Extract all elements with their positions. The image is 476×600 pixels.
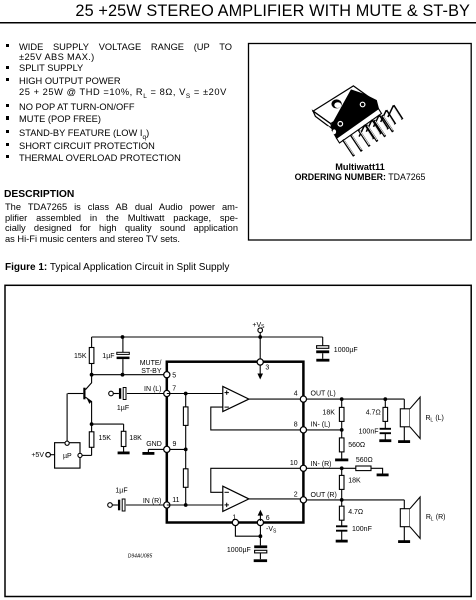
ground RL(R) (398, 540, 410, 543)
node R7/R8 (340, 466, 344, 470)
ground C6 (379, 433, 391, 441)
resistor R2 15K (82, 424, 111, 455)
svg-text:100nF: 100nF (359, 428, 379, 435)
label RL (L) (426, 415, 444, 423)
wire IN-(L) (306, 429, 341, 431)
ground C1 (316, 359, 329, 362)
pin 2 (294, 492, 307, 503)
svg-text:µP: µP (63, 453, 72, 460)
svg-text:7: 7 (172, 385, 176, 392)
node in+ L (184, 392, 188, 396)
svg-text:OUT (L): OUT (L) (311, 390, 336, 397)
label MUTE/ST-BY (140, 360, 162, 375)
package body (331, 90, 379, 138)
svg-text:(L): (L) (433, 415, 444, 422)
wire mute line (92, 374, 164, 376)
svg-text:+VS: +VS (252, 322, 265, 330)
capacitor C7 100nF (336, 520, 372, 533)
pin 6 arrow (258, 510, 264, 521)
node R5 top (340, 428, 344, 432)
wire C1 drop (322, 337, 324, 346)
svg-text:IN (R): IN (R) (143, 498, 162, 505)
ground R5 (335, 452, 348, 460)
pin 1 (232, 514, 238, 525)
svg-text:IN- (L): IN- (L) (311, 421, 331, 428)
svg-text:6: 6 (266, 515, 270, 522)
Multiwatt11 package tab plate (313, 86, 371, 130)
node Q1 emitter (90, 422, 94, 426)
wire in+ L (167, 393, 223, 395)
input terminal IN(R) (108, 503, 113, 508)
svg-text:-VS: -VS (266, 526, 277, 534)
wire feedback L (211, 407, 301, 430)
wire pin1/pin6 join (235, 525, 260, 536)
svg-text:1: 1 (232, 514, 236, 521)
capacitor C5 1000uF (227, 536, 267, 559)
wire pin3 drop (259, 337, 261, 359)
wire in+ R (167, 504, 223, 506)
pin 11 (164, 497, 180, 508)
ground R7 (371, 468, 389, 475)
resistor R9 4.7 (339, 500, 363, 520)
node +Vs/pin3 (258, 335, 262, 339)
svg-text:4: 4 (294, 391, 298, 398)
transistor Q1 (68, 375, 92, 424)
resistor R3 18K (121, 424, 142, 446)
package name Multiwatt11 (249, 162, 472, 172)
label IN- (L) (311, 421, 331, 428)
svg-text:IN- (R): IN- (R) (311, 461, 332, 468)
pin 7 (164, 385, 177, 396)
svg-text:1000µF: 1000µF (227, 547, 251, 554)
+5V terminal (31, 452, 54, 459)
page title (0, 2, 470, 21)
title rule (0, 22, 476, 24)
wire OUT(R) (306, 499, 404, 501)
pin 5 (164, 372, 177, 380)
microprocessor box (55, 443, 80, 468)
wire pin 9 internal (170, 448, 186, 450)
svg-text:MUTE/: MUTE/ (140, 360, 162, 367)
capacitor C2 1uF (102, 337, 129, 375)
pin 8 (294, 422, 307, 433)
node R8 bottom (340, 498, 344, 502)
package body notch (327, 126, 336, 134)
pin 3 arrow (257, 366, 263, 380)
ground pin 9 (142, 449, 164, 453)
DESCRIPTION heading (4, 189, 74, 200)
wire out R internal (249, 499, 304, 500)
wire emitter branch (92, 423, 124, 425)
pin 6 (257, 515, 269, 526)
wire +Vs rail (92, 333, 323, 338)
op-amp A2 (223, 486, 249, 511)
node +Vs/C2 (121, 335, 125, 339)
capacitor C6 100nF (359, 421, 391, 435)
svg-text:10: 10 (290, 460, 298, 467)
resistor R4 18K (322, 399, 344, 430)
svg-text:11: 11 (172, 497, 179, 504)
node internal gnd (184, 448, 188, 452)
node mute/Q1 (90, 373, 94, 377)
resistor R5 560 (339, 430, 365, 452)
ordering number (249, 172, 472, 182)
input terminal IN(L) (109, 391, 114, 396)
uP top port (65, 441, 69, 445)
IC TDA7265 outline (167, 362, 304, 523)
svg-text:18K: 18K (129, 435, 142, 442)
capacitor C1 1000uF (316, 346, 357, 359)
svg-text:+5V: +5V (31, 452, 44, 459)
resistor R8 18K (339, 468, 361, 500)
svg-text:IN (L): IN (L) (144, 386, 162, 393)
svg-text:8: 8 (294, 422, 298, 429)
label OUT (R) (311, 492, 337, 499)
svg-text:D94AU085: D94AU085 (128, 553, 153, 559)
svg-text:9: 9 (173, 441, 177, 448)
drawing code D94AU085 (128, 553, 153, 559)
label OUT (L) (311, 390, 336, 397)
op-amp A1 (223, 386, 249, 411)
package front pin row (343, 115, 393, 156)
ground R3 (118, 447, 130, 453)
svg-text:GND: GND (146, 441, 162, 448)
capacitor C4 1uF (112, 487, 164, 511)
resistor R1 15K (74, 337, 94, 375)
svg-text:4.7Ω: 4.7Ω (348, 509, 363, 516)
label IN (L) (144, 386, 162, 393)
figure caption (5, 262, 229, 273)
svg-text:1µF: 1µF (115, 487, 127, 494)
package back pin row (359, 105, 402, 139)
label GND (146, 441, 162, 448)
label IN (R) (143, 498, 162, 505)
svg-text:5: 5 (172, 372, 176, 379)
figure border (5, 285, 471, 596)
package body hole left (338, 122, 343, 127)
feature bullet list (0, 0, 476, 1)
package outline box (249, 44, 472, 241)
label RL (R) (426, 514, 446, 522)
node R6 top (383, 397, 387, 401)
wire Q1 base (66, 394, 68, 442)
ground RL(L) (398, 440, 410, 443)
pin 4 (294, 391, 307, 403)
node R4 top (340, 397, 344, 401)
svg-text:100nF: 100nF (352, 526, 372, 533)
svg-text:4.7Ω: 4.7Ω (366, 409, 381, 416)
svg-text:1000µF: 1000µF (334, 347, 358, 354)
resistor R7 560 (356, 457, 373, 471)
svg-text:560Ω: 560Ω (348, 442, 365, 449)
internal resistor right (183, 449, 188, 505)
node -Vs (259, 534, 263, 538)
svg-text:18K: 18K (348, 478, 361, 485)
svg-text:OUT (R): OUT (R) (311, 492, 337, 499)
svg-text:560Ω: 560Ω (356, 457, 373, 464)
description paragraph (5, 202, 238, 244)
pin 3 (257, 359, 269, 372)
internal resistor left (183, 394, 188, 450)
pin 10 (290, 460, 307, 471)
svg-text:15K: 15K (99, 435, 112, 442)
svg-text:2: 2 (294, 492, 298, 499)
wire feedback R (211, 468, 301, 492)
svg-text:18K: 18K (322, 409, 335, 416)
+Vs terminal (252, 322, 265, 333)
label IN- (R) (311, 461, 332, 468)
speaker RL(L) (400, 397, 420, 440)
wire OUT(L) (306, 398, 404, 400)
speaker RL(R) (400, 497, 420, 541)
label -Vs (266, 526, 277, 534)
package body hole right (360, 102, 365, 107)
node mute/C2 (121, 373, 125, 377)
resistor R6 4.7 (366, 399, 388, 421)
package front strip (337, 109, 382, 143)
pin 9 (164, 441, 177, 453)
capacitor C3 1uF (113, 388, 164, 412)
svg-text:15K: 15K (74, 353, 87, 360)
ground C7 (336, 531, 348, 541)
svg-text:(R): (R) (434, 514, 446, 521)
svg-text:ST-BY: ST-BY (141, 368, 162, 375)
package tab hole (331, 99, 341, 108)
svg-text:3: 3 (265, 365, 269, 372)
wire out L internal (249, 398, 304, 400)
svg-text:1µF: 1µF (117, 405, 129, 412)
svg-text:1µF: 1µF (102, 353, 114, 360)
ground C5 (254, 559, 267, 562)
node in+ R (184, 503, 188, 507)
wire IN-(R) (306, 467, 356, 469)
uP right port (78, 453, 82, 457)
